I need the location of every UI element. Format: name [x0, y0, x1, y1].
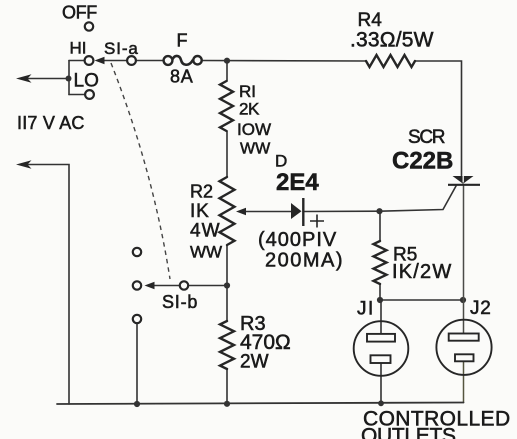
svg-text:C22B: C22B [392, 148, 453, 175]
SCR cathode bar [448, 184, 480, 186]
outlet J2 circle [436, 320, 491, 375]
svg-text:SI-a: SI-a [104, 39, 139, 58]
wire R1 top stub [226, 61, 228, 81]
svg-text:R2: R2 [190, 182, 213, 202]
wire S1-b pole arm [152, 285, 180, 287]
wire 117VAC lower lead with corner [24, 165, 69, 405]
outlet J1 circle [354, 321, 409, 376]
outlet J1 top slot [367, 334, 395, 342]
wire J2 top feed [463, 300, 465, 334]
fuse F left terminal [164, 56, 173, 65]
svg-text:RI: RI [239, 82, 256, 101]
wire stub to LO contact [69, 94, 85, 96]
node rail/S1-b junction [134, 401, 140, 407]
svg-text:HI: HI [70, 39, 87, 58]
node HI/LO common junction [66, 76, 72, 82]
node R5 bottom junction [377, 297, 383, 303]
svg-text:JI: JI [357, 299, 375, 320]
svg-text:WW: WW [240, 141, 271, 158]
svg-text:(400PIV: (400PIV [258, 229, 337, 251]
svg-text:OFF: OFF [62, 3, 97, 23]
outlet J1 bottom slot [371, 355, 391, 363]
wire R4 right to corner, down to SCR anode [415, 61, 462, 176]
node R1 top junction [224, 58, 230, 64]
S1-a HI contact [85, 56, 94, 65]
resistor R1 body [220, 81, 233, 131]
wire junction to SCR gate [380, 186, 457, 211]
arrowhead S1-b pole [145, 282, 155, 289]
wire S1-b pole to junction [188, 285, 227, 287]
svg-text:OUTLETS: OUTLETS [361, 425, 456, 439]
fuse F body [172, 56, 193, 65]
diode + polarity mark [310, 215, 324, 228]
S1-a pole contact [127, 56, 136, 65]
svg-text:2W: 2W [240, 352, 269, 373]
diode D cathode bar [302, 198, 304, 226]
fuse F right terminal [193, 56, 201, 64]
wire SCR cathode down [463, 186, 465, 300]
svg-text:SI-b: SI-b [162, 292, 198, 312]
wire R1 to R2 [226, 131, 228, 177]
svg-text:8A: 8A [170, 67, 194, 87]
wire R2 wiper to diode [244, 211, 291, 213]
svg-text:4W: 4W [190, 221, 221, 242]
wire R5 top stub [379, 211, 381, 241]
node rail/J1 junction [378, 400, 384, 406]
outlet J2 bottom slot [455, 354, 474, 361]
S1-a LO contact [85, 90, 94, 99]
resistor R4 body [366, 55, 415, 67]
S1-b pole contact [180, 281, 188, 289]
node SCR cathode / J2 junction [460, 297, 466, 303]
wire 117VAC upper lead [24, 78, 69, 80]
svg-text:2K: 2K [239, 100, 260, 119]
node R2/R3/S1-b junction [224, 282, 230, 288]
svg-text:IOW: IOW [237, 120, 271, 139]
arrowhead R2 wiper [236, 208, 246, 215]
resistor R5 body [374, 241, 387, 284]
svg-text:2E4: 2E4 [276, 169, 319, 196]
wire S1-a pole arm [102, 60, 128, 62]
svg-text:LO: LO [74, 71, 99, 92]
svg-text:200MA): 200MA) [265, 250, 344, 272]
diode D triangle [291, 203, 302, 219]
wire J1 bottom to rail [380, 363, 382, 404]
wire fuse to R4 [202, 60, 366, 63]
svg-text:F: F [177, 31, 188, 51]
svg-text:WW: WW [190, 243, 222, 262]
wire S1-b bottom contact to rail [136, 323, 138, 404]
resistor R3 body [220, 321, 234, 369]
S1-a OFF contact [85, 22, 93, 30]
ganged-switch dashed link [111, 63, 170, 279]
svg-text:II7 V AC: II7 V AC [17, 113, 85, 133]
wire R3 bottom to rail [226, 369, 228, 404]
svg-text:J2: J2 [470, 298, 492, 319]
S1-b bottom contact [133, 315, 141, 323]
svg-text:SCR: SCR [408, 127, 445, 148]
svg-text:IK/2W: IK/2W [392, 261, 452, 283]
S1-b top contact [133, 248, 141, 256]
SCR triangle [453, 176, 474, 184]
S1-b mid contact [133, 281, 141, 289]
node rail/R3 junction [224, 401, 230, 407]
wire R2 bottom to junction to R3 [226, 245, 228, 321]
wire J1 top feed [380, 300, 382, 334]
SCR triangle center notch [462, 175, 464, 183]
wire R5 to SCR cathode line [380, 299, 463, 301]
wire pole to fuse [136, 60, 164, 62]
wire stub to HI contact [69, 60, 85, 62]
arrowhead 117VAC upper [16, 74, 32, 83]
wire diode to gate junction [304, 210, 379, 212]
outlet J2 top slot [449, 334, 479, 341]
svg-text:.33Ω/5W: .33Ω/5W [350, 29, 434, 52]
wire bottom rail [57, 403, 464, 405]
arrowhead S1-a pole (points to HI) [95, 57, 105, 64]
svg-text:D: D [275, 152, 287, 171]
potentiometer R2 body [220, 177, 235, 245]
wire HI/LO common vertical [68, 61, 70, 95]
svg-text:IK: IK [190, 201, 210, 222]
node diode/R5/gate junction [376, 208, 382, 214]
wire R5 bottom stub [379, 284, 381, 300]
wire J2 bottom to rail [463, 362, 465, 403]
arrowhead 117VAC lower [16, 160, 32, 169]
